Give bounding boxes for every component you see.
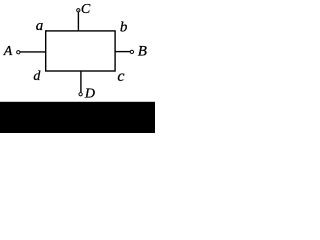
terminal B circle (130, 50, 133, 53)
wire D (80, 71, 82, 92)
svg-text:A: A (3, 44, 13, 59)
svg-text:b: b (120, 19, 128, 35)
svg-text:D: D (84, 87, 95, 102)
terminal A circle (17, 51, 20, 54)
terminal C circle (77, 9, 80, 12)
black bar (0, 102, 155, 133)
svg-text:a: a (36, 18, 44, 34)
svg-text:d: d (33, 69, 41, 84)
wire B (115, 51, 130, 53)
terminal C center dot (77, 9, 80, 12)
svg-text:C: C (81, 2, 91, 17)
svg-text:c: c (117, 68, 124, 85)
wire C (77, 12, 79, 31)
svg-text:B: B (138, 44, 147, 60)
network box (46, 31, 115, 71)
wire A (19, 51, 46, 53)
terminal D circle (79, 93, 82, 96)
